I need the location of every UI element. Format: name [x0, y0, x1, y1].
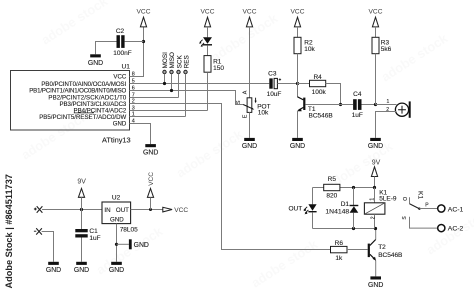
svg-text:10k: 10k [304, 46, 315, 53]
IC pin numbers [132, 71, 135, 124]
svg-text:1uF: 1uF [352, 112, 363, 119]
capacitor C3 [269, 78, 281, 88]
svg-text:VCC: VCC [137, 9, 151, 16]
svg-text:100k: 100k [312, 89, 327, 96]
ground - input [46, 262, 61, 274]
wire R4 left [298, 83, 310, 85]
svg-text:SCK: SCK [176, 55, 183, 69]
wire pin8 to VCC [130, 27, 144, 77]
svg-text:R6: R6 [335, 240, 344, 247]
wire R3 down to node [375, 54, 377, 105]
VCC symbol above R2 [291, 9, 305, 27]
wire T1 emitter to GND [297, 111, 299, 138]
ground T1 [290, 138, 305, 150]
node relay bottom / T2 collector [374, 227, 377, 230]
svg-text:ATtiny13: ATtiny13 [102, 135, 131, 144]
svg-text:OUT: OUT [289, 205, 303, 212]
wire C4 to mic node [362, 104, 397, 106]
svg-text:C4: C4 [353, 91, 362, 98]
lower left power input - terminal [34, 228, 42, 234]
svg-text:GND: GND [143, 149, 158, 156]
svg-text:R4: R4 [313, 74, 322, 81]
ground side rotated [129, 239, 149, 249]
wire R2 to T1 collector [297, 54, 299, 97]
wire VCC to POT [249, 27, 251, 98]
svg-text:GND: GND [109, 267, 124, 274]
svg-text:1k: 1k [335, 255, 343, 262]
node 9V/C1 junction [80, 208, 83, 211]
relay contact K1 [403, 191, 464, 213]
svg-text:IN: IN [104, 207, 110, 214]
wire pin7 SCK line [130, 97, 179, 99]
svg-text:A: A [243, 90, 249, 94]
svg-text:D1: D1 [341, 201, 350, 208]
svg-text:GND: GND [88, 60, 103, 67]
wire pin5 MOSI line [130, 83, 270, 85]
svg-text:AC-1: AC-1 [448, 206, 464, 213]
capacitor C4 [353, 99, 361, 110]
transistor T2 [368, 240, 376, 261]
IC U1 box [11, 71, 130, 131]
node D1 top [352, 186, 355, 189]
relay coil K1 [364, 188, 385, 229]
RESET overline [74, 112, 94, 114]
VCC output arrow [163, 207, 189, 214]
ground T2 [368, 276, 383, 288]
wire VCC to R2 [297, 27, 299, 37]
ground pin4 [143, 144, 158, 156]
wire C3 to T1 node [277, 83, 297, 85]
wire pin2 to bottom section [130, 104, 331, 250]
svg-text:9V: 9V [77, 179, 86, 186]
svg-text:BC546B: BC546B [309, 113, 333, 120]
wire pin1 RES line [130, 116, 186, 118]
wire junction to C1 [81, 210, 83, 230]
svg-text:150: 150 [213, 65, 224, 72]
wire POT to GND [249, 112, 251, 137]
svg-text:9V: 9V [372, 159, 381, 166]
wire R4 right to base node [326, 84, 341, 105]
node OUT/VCC junction [149, 208, 152, 211]
svg-text:GND: GND [74, 267, 89, 274]
IC pin row texts [29, 74, 127, 128]
wire mic pin1 [376, 104, 397, 106]
resistor R5 [324, 184, 340, 190]
svg-text:C3: C3 [268, 71, 277, 78]
wire C2 to GND [96, 42, 117, 55]
svg-text:820: 820 [326, 192, 337, 199]
node C3/R2/R4 junction [296, 82, 299, 85]
svg-text:K1: K1 [417, 191, 424, 199]
LED OUT [303, 204, 316, 214]
svg-text:OUT: OUT [116, 207, 129, 214]
wire R1 to pin3 line [207, 72, 209, 110]
resistor R4 [310, 80, 326, 86]
svg-text:Adobe Stock | #864511737: Adobe Stock | #864511737 [4, 174, 14, 288]
node C4/R3/mic junction [374, 103, 377, 106]
capacitor C2 [117, 35, 125, 48]
wire R6 to T2 base [347, 249, 368, 251]
svg-text:GND: GND [46, 267, 61, 274]
connector pin MOSI [162, 52, 169, 85]
svg-text:BC546B: BC546B [378, 252, 402, 259]
wire relay bottom rail [313, 228, 377, 230]
diode D1 [350, 188, 359, 229]
regulator U2 box [102, 202, 131, 224]
svg-text:2: 2 [386, 107, 389, 113]
svg-text:10uF: 10uF [267, 91, 282, 98]
ground POT [242, 138, 257, 150]
svg-text:1uF: 1uF [89, 235, 100, 242]
LED LED1 [199, 37, 212, 47]
connector pin SCK [176, 55, 183, 98]
svg-text:MISO: MISO [169, 52, 176, 68]
wire + input rail [42, 209, 102, 211]
svg-text:2: 2 [370, 216, 376, 219]
svg-text:1N4148: 1N4148 [325, 208, 349, 215]
ground C2 [88, 54, 103, 67]
VCC symbol above R3 [369, 9, 383, 27]
svg-text:O: O [403, 197, 409, 201]
VCC symbol above LED1 [201, 9, 215, 27]
lower left power input + terminal [34, 206, 43, 212]
svg-text:C2: C2 [116, 28, 125, 35]
svg-text:S: S [236, 100, 242, 104]
wire U2 GND pin [116, 224, 118, 262]
wire C1 to GND [81, 238, 83, 262]
wire VCC to R3 [375, 27, 377, 37]
svg-text:VCC: VCC [369, 9, 383, 16]
resistor R1 [204, 56, 211, 73]
svg-text:VCC: VCC [174, 207, 188, 214]
wire - input to GND [42, 232, 54, 262]
node D1 bottom [352, 227, 355, 230]
resistor R6 [331, 246, 348, 252]
svg-text:AC-2: AC-2 [448, 226, 464, 233]
wire pin3 line [130, 110, 208, 112]
wire T2 collector up [375, 229, 377, 240]
connector pin MISO [169, 52, 176, 92]
svg-text:78L05: 78L05 [120, 227, 138, 234]
node U2 gnd branch [115, 243, 118, 246]
9V symbol right [371, 159, 380, 187]
svg-text:U1: U1 [122, 63, 131, 70]
svg-text:GND: GND [110, 216, 124, 223]
connector pin RES [184, 55, 191, 116]
relay contact lower [402, 216, 464, 233]
wire C2 to junction [125, 41, 144, 43]
svg-text:GND: GND [290, 143, 305, 150]
node R4/base junction [339, 103, 342, 106]
wire base node to C4 [341, 104, 354, 106]
microphone BF1 [386, 99, 410, 118]
svg-text:E: E [242, 114, 248, 118]
svg-text:GND: GND [368, 143, 383, 150]
wire OUT led branch [312, 188, 314, 205]
svg-text:RES: RES [184, 55, 191, 68]
transistor T1 [297, 97, 341, 111]
wire pin4 to GND [130, 124, 151, 145]
wire relay top rail [313, 187, 375, 189]
potentiometer POT [236, 90, 257, 118]
svg-text:10k: 10k [258, 109, 269, 116]
VCC symbol top1 [137, 9, 151, 27]
ground mic [368, 138, 383, 150]
svg-text:100nF: 100nF [113, 50, 131, 57]
svg-text:5k6: 5k6 [381, 46, 392, 53]
ground C1 [74, 262, 89, 274]
svg-text:VCC: VCC [201, 9, 215, 16]
svg-text:5LE-9: 5LE-9 [379, 196, 397, 203]
VCC symbol above POT [243, 9, 257, 27]
svg-text:GND: GND [242, 143, 257, 150]
capacitor C1 [75, 229, 87, 238]
ground U2 [109, 262, 124, 274]
9V symbol left [77, 179, 86, 210]
wire branch to side GND [117, 243, 129, 245]
wire OUT led to bottom rail [312, 212, 314, 228]
svg-text:GND: GND [368, 282, 383, 289]
svg-text:VCC: VCC [243, 9, 257, 16]
svg-text:R5: R5 [328, 176, 337, 183]
wire LED1 to R1 [207, 45, 209, 55]
wire T2 emitter to GND [375, 261, 377, 277]
resistor R2 [294, 37, 301, 53]
svg-text:GND: GND [113, 121, 127, 128]
svg-text:T2: T2 [378, 244, 386, 251]
wire pin6 MISO line to pot slider [130, 91, 244, 105]
wire U2 OUT [131, 209, 163, 211]
svg-text:VCC: VCC [148, 172, 155, 186]
node relay top [373, 186, 376, 189]
wire mic pin2 to GND [376, 112, 397, 138]
resistor R3 [372, 37, 379, 53]
node pin8/C2 junction [142, 40, 145, 43]
VCC symbol rotated above OUT [147, 172, 155, 210]
svg-text:GND: GND [134, 242, 149, 249]
svg-text:VCC: VCC [113, 74, 126, 81]
svg-text:MOSI: MOSI [162, 52, 169, 69]
svg-text:VCC: VCC [291, 9, 305, 16]
wire VCC to LED1 [207, 27, 209, 38]
svg-text:U2: U2 [112, 194, 121, 201]
svg-text:1: 1 [369, 198, 375, 201]
